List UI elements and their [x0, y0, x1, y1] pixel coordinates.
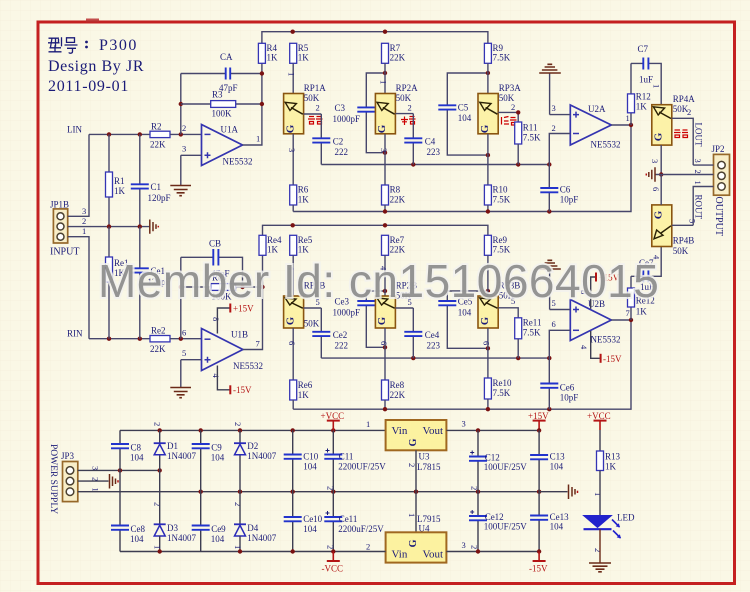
U2A output pin 1	[611, 113, 633, 127]
svg-text:1: 1	[593, 492, 603, 496]
svg-text:Vin: Vin	[392, 549, 408, 561]
svg-text:100K: 100K	[212, 109, 233, 119]
diode D3 1N4007	[153, 523, 197, 552]
resistor Re11 7.5K	[515, 318, 542, 359]
svg-text:3: 3	[82, 206, 86, 216]
svg-text:R9: R9	[493, 43, 504, 53]
svg-text:2200uF/25V: 2200uF/25V	[338, 524, 384, 534]
red notch artifact on top border	[86, 19, 99, 23]
inverted ground at U2A pin3	[539, 64, 561, 73]
capacitor C9 104	[192, 430, 225, 491]
svg-text:2: 2	[511, 102, 515, 112]
U1B pin 4 -15V	[211, 366, 252, 396]
+15V power symbol (top bus)	[528, 411, 549, 430]
feedback rail U1A pin2	[180, 74, 182, 135]
svg-text:3: 3	[462, 540, 466, 550]
svg-text:1N4007: 1N4007	[247, 533, 276, 543]
wire bottom power bus	[120, 542, 386, 554]
svg-text:2: 2	[182, 123, 186, 133]
svg-text:1K: 1K	[636, 307, 648, 317]
svg-text:C11: C11	[339, 452, 354, 462]
-VCC power symbol (bottom bus)	[322, 552, 344, 574]
wire bus3 B (feedback return)	[293, 320, 631, 411]
svg-text:22K: 22K	[390, 53, 406, 63]
svg-text:RIN: RIN	[67, 329, 83, 339]
svg-text:1K: 1K	[267, 245, 279, 255]
svg-text:1: 1	[233, 545, 243, 549]
svg-text:2: 2	[233, 422, 243, 426]
svg-text:10pF: 10pF	[560, 195, 579, 205]
red label gaoyin (treble)	[308, 117, 323, 125]
inverted ground at U2B pin5	[539, 260, 561, 269]
svg-text:1000pF: 1000pF	[333, 114, 361, 124]
svg-text:2: 2	[366, 542, 370, 552]
svg-text:-VCC: -VCC	[322, 564, 344, 574]
ground (power common at JP3)	[110, 474, 119, 489]
svg-text:10pF: 10pF	[560, 393, 579, 403]
svg-text:Ce13: Ce13	[550, 512, 569, 522]
svg-text:223: 223	[427, 147, 441, 157]
resistor Re4 1K	[259, 235, 282, 255]
U1A output pin 1 wire	[243, 63, 265, 145]
svg-text:+15V: +15V	[528, 411, 549, 421]
svg-text:7.5K: 7.5K	[493, 53, 511, 63]
svg-text:Ce12: Ce12	[485, 512, 504, 522]
capacitor Ce3 1000pF	[333, 289, 388, 350]
svg-text:1N4007: 1N4007	[167, 451, 196, 461]
svg-text:+VCC: +VCC	[321, 411, 345, 421]
JP2 pin 3 wire	[693, 159, 714, 166]
svg-text:Ce8: Ce8	[131, 524, 146, 534]
svg-text:JP2: JP2	[712, 144, 725, 154]
capacitor C12 100UF/25V	[469, 430, 527, 491]
svg-text:50K: 50K	[304, 319, 320, 329]
RP3B wiper pin 5 wire	[498, 296, 518, 318]
svg-text:INPUT: INPUT	[50, 247, 79, 258]
diode D2 1N4007	[233, 422, 277, 492]
resistor Re5 1K	[290, 235, 313, 255]
svg-text:2: 2	[593, 548, 603, 552]
U2B pin 8 +15V	[579, 273, 620, 309]
svg-text:C13: C13	[550, 452, 566, 462]
wire bus2 B (wiper bus)	[321, 356, 551, 360]
svg-text:Re6: Re6	[298, 380, 313, 390]
wire top power bus	[120, 428, 386, 432]
svg-text:1K: 1K	[114, 186, 126, 196]
svg-text:22K: 22K	[390, 195, 406, 205]
wire bus2 A (wiper bus)	[321, 162, 551, 166]
RP1B wiper pin 5 wire	[304, 297, 322, 308]
ground (output common)	[646, 167, 661, 181]
resistor R6 1K	[290, 185, 310, 212]
svg-text:NE5532: NE5532	[591, 140, 621, 150]
svg-text:1K: 1K	[298, 390, 310, 400]
svg-text:CB: CB	[209, 239, 221, 249]
op-amp U1B NE5532	[202, 329, 264, 372]
U2B pin 6 riser	[549, 319, 570, 358]
svg-text:R4: R4	[267, 43, 278, 53]
svg-text:NE5532: NE5532	[233, 361, 263, 371]
svg-text:50K: 50K	[673, 246, 689, 256]
svg-text:1K: 1K	[267, 53, 279, 63]
potentiometer RP2B 50K	[375, 255, 417, 380]
op-amp U2B NE5532	[570, 299, 620, 345]
RP4B wiper pin 5 wire	[672, 219, 698, 225]
svg-text:22K: 22K	[390, 390, 406, 400]
svg-text:6: 6	[182, 328, 186, 338]
U2A pin 2 riser	[549, 123, 570, 165]
svg-text:2: 2	[326, 545, 336, 549]
svg-text:2: 2	[470, 545, 480, 549]
svg-text:Ce11: Ce11	[339, 514, 358, 524]
resistor Re12 1K	[628, 276, 655, 320]
svg-text:G: G	[480, 317, 491, 325]
svg-text:Re9: Re9	[493, 235, 508, 245]
svg-text:104: 104	[130, 534, 144, 544]
JP2 pin 2 wire	[661, 170, 713, 175]
svg-text:1: 1	[378, 80, 388, 84]
capacitor Ce10 104	[284, 492, 323, 552]
svg-text:1: 1	[626, 113, 630, 123]
svg-text:3: 3	[91, 466, 101, 470]
capacitor Ce9 104	[192, 492, 226, 552]
svg-text:1K: 1K	[636, 102, 648, 112]
capacitor Ce4 223	[404, 308, 440, 358]
svg-text:+VCC: +VCC	[587, 411, 611, 421]
svg-text:C12: C12	[485, 453, 500, 463]
svg-text:G: G	[408, 539, 419, 547]
svg-text:R11: R11	[523, 123, 538, 133]
connector JP3	[48, 444, 78, 514]
potentiometer RP4A 50K	[652, 94, 696, 145]
svg-text:1: 1	[652, 84, 662, 88]
svg-text:LIN: LIN	[67, 125, 82, 135]
svg-text:6: 6	[482, 341, 492, 345]
svg-text:5: 5	[688, 219, 698, 223]
svg-text:G: G	[376, 124, 388, 133]
svg-text:22K: 22K	[390, 245, 406, 255]
U4 output wire pin 3	[446, 540, 541, 554]
svg-text:U2A: U2A	[588, 104, 606, 114]
svg-text:1000pF: 1000pF	[333, 308, 361, 318]
svg-text:C6: C6	[560, 185, 571, 195]
wire top bus B	[263, 223, 488, 235]
capacitor Ce6 10pF	[540, 358, 578, 409]
wire bus3 A (feedback return)	[293, 125, 631, 214]
svg-text:Re7: Re7	[390, 235, 405, 245]
svg-text:POWER SUPPLY: POWER SUPPLY	[48, 444, 58, 514]
capacitor Ce2 222	[312, 308, 348, 358]
svg-text:C4: C4	[425, 137, 436, 147]
svg-text:7.5K: 7.5K	[493, 388, 511, 398]
svg-text:6: 6	[552, 319, 556, 329]
svg-text:1K: 1K	[298, 245, 310, 255]
resistor R8 22K	[382, 185, 406, 212]
-15V power symbol (bottom bus)	[529, 552, 548, 574]
svg-text:R7: R7	[390, 43, 401, 53]
RP3A wiper pin 2 wire	[498, 102, 520, 122]
U3 output wire pin 3	[446, 419, 541, 433]
svg-text:Ce9: Ce9	[211, 524, 226, 534]
U1B pin 5 wire	[181, 348, 202, 388]
resistor Re1 1K	[106, 227, 129, 339]
svg-text:U1A: U1A	[221, 125, 239, 135]
potentiometer RP1A 50K	[284, 63, 327, 185]
svg-text:3: 3	[287, 148, 297, 152]
potentiometer RP4B 50K	[652, 205, 695, 256]
svg-text:R10: R10	[493, 185, 509, 195]
svg-text:R3: R3	[212, 90, 223, 100]
LED	[584, 513, 635, 539]
svg-text:G: G	[408, 438, 419, 446]
JP1B pin 2 ground wire	[68, 216, 150, 227]
svg-text:Ce6: Ce6	[560, 383, 575, 393]
capacitor CA 47pF	[181, 52, 262, 93]
svg-text:L7815: L7815	[417, 462, 441, 472]
U1B output pin 7 wire	[243, 255, 263, 349]
svg-text:G: G	[653, 132, 665, 141]
feedback rail U1B pin6	[180, 257, 182, 338]
wire R2 to U1A pin2	[170, 133, 202, 135]
capacitor Ce5 104	[438, 289, 490, 351]
capacitor C4 223	[404, 114, 440, 165]
capacitor C13 104	[530, 430, 565, 491]
svg-text:1uF: 1uF	[639, 75, 653, 85]
resistor R5 1K	[290, 43, 310, 63]
svg-text:3: 3	[379, 148, 389, 152]
svg-text:G: G	[479, 124, 491, 133]
svg-text:1: 1	[693, 181, 703, 185]
potentiometer RP1B 50K	[284, 255, 326, 380]
svg-text:2: 2	[316, 103, 320, 113]
svg-text:D4: D4	[247, 523, 258, 533]
svg-text:1: 1	[287, 72, 297, 76]
svg-text:3: 3	[552, 103, 556, 113]
svg-text:C7: C7	[638, 44, 649, 54]
capacitor C3 1000pF	[333, 71, 388, 155]
svg-text:G: G	[653, 210, 665, 219]
svg-text:3: 3	[650, 159, 660, 163]
svg-text:Member Id: cn1510664015: Member Id: cn1510664015	[98, 255, 659, 307]
potentiometer RP3B 50K	[478, 255, 520, 377]
svg-text:8: 8	[211, 317, 221, 321]
svg-text:R8: R8	[390, 185, 401, 195]
svg-text:120pF: 120pF	[148, 193, 171, 203]
svg-text:222: 222	[335, 341, 349, 351]
JP3 pin 3 wire (row A)	[78, 466, 162, 473]
svg-text:RP3A: RP3A	[499, 83, 522, 93]
svg-text:2: 2	[326, 486, 336, 490]
resistor R11 7.5K	[515, 122, 541, 165]
RP4A wiper pin 2 / LOUT	[672, 107, 704, 165]
capacitor C10 104	[284, 430, 319, 491]
connector JP2	[712, 144, 730, 236]
potentiometer RP3A 50K	[478, 63, 521, 185]
svg-text:Vout: Vout	[423, 425, 444, 437]
svg-text:U1B: U1B	[231, 330, 248, 340]
ground at U1A pin3	[170, 186, 191, 196]
op-amp U1A NE5532	[202, 125, 253, 167]
resistor R2 22K	[150, 122, 170, 150]
resistor Re10 7.5K	[484, 378, 512, 409]
svg-text:D2: D2	[247, 441, 258, 451]
svg-text:222: 222	[335, 147, 349, 157]
regulator U4 L7915	[386, 492, 447, 563]
svg-text:7.5K: 7.5K	[523, 133, 541, 143]
wire D1-D3 column	[153, 470, 163, 524]
capacitor Ce13 104	[530, 492, 569, 552]
svg-text:C2: C2	[333, 137, 344, 147]
svg-text:D3: D3	[167, 523, 178, 533]
title text 型号: P300	[48, 37, 144, 95]
svg-text:C5: C5	[458, 103, 469, 113]
svg-text:R13: R13	[605, 452, 621, 462]
ground (input common)	[150, 220, 159, 234]
svg-text:R2: R2	[151, 122, 162, 132]
svg-text:104: 104	[303, 462, 317, 472]
svg-text:2200UF/25V: 2200UF/25V	[338, 462, 386, 472]
svg-text:3: 3	[693, 159, 703, 163]
svg-text:RP4A: RP4A	[673, 94, 696, 104]
svg-text:5: 5	[182, 348, 186, 358]
svg-text:Ce10: Ce10	[303, 514, 322, 524]
svg-text:6: 6	[287, 341, 297, 345]
RP4A pin 3 to ground	[650, 145, 663, 177]
svg-text:7: 7	[256, 339, 260, 349]
svg-text:7.5K: 7.5K	[493, 195, 511, 205]
svg-text:C3: C3	[335, 103, 346, 113]
U2B pin 4 -15V	[579, 331, 622, 364]
resistor Re7 22K	[382, 235, 406, 255]
+VCC power symbol (top bus)	[321, 411, 345, 430]
svg-text:1N4007: 1N4007	[247, 451, 276, 461]
capacitor Ce1 120pF	[131, 227, 171, 339]
resistor Re8 22K	[382, 380, 406, 409]
regulator U3 L7815	[366, 419, 446, 472]
connector JP1B	[50, 200, 79, 258]
capacitor Ce11 2200uF/25V	[324, 492, 384, 552]
capacitor C2 222	[312, 114, 348, 165]
svg-text:50K: 50K	[304, 93, 320, 103]
svg-text:2: 2	[693, 170, 703, 174]
red label diyin (bass)	[502, 117, 517, 126]
svg-text:2: 2	[82, 216, 86, 226]
svg-text:22K: 22K	[150, 140, 166, 150]
svg-text:R6: R6	[298, 185, 309, 195]
op-amp U2A NE5532	[570, 104, 620, 150]
svg-text:6: 6	[651, 187, 661, 191]
RP2B wiper pin 5 wire	[395, 297, 413, 308]
svg-text:1K: 1K	[605, 462, 617, 472]
wire LED to ground	[593, 529, 603, 563]
ground at U1B pin5	[170, 388, 191, 398]
diode D4 1N4007	[233, 492, 277, 552]
svg-text:-15V: -15V	[603, 354, 622, 364]
capacitor C1 120pF	[131, 134, 171, 228]
svg-text:100UF/25V: 100UF/25V	[484, 522, 528, 532]
JP1B pin 3 wire to LIN	[68, 134, 89, 216]
JP3 pin 1 wire (row B mid bus)	[78, 488, 542, 494]
resistor Re6 1K	[290, 380, 313, 409]
svg-text:C8: C8	[131, 443, 142, 453]
red label yinliang (volume)	[674, 130, 688, 138]
wire top bus A	[262, 30, 488, 44]
capacitor C6 10pF	[540, 165, 578, 212]
svg-text:2: 2	[470, 486, 480, 490]
svg-text:50K: 50K	[396, 93, 412, 103]
svg-text:Ce2: Ce2	[333, 330, 348, 340]
svg-text:Design By JR: Design By JR	[48, 58, 144, 75]
svg-text:G: G	[377, 317, 388, 325]
svg-text:7: 7	[626, 308, 630, 318]
svg-text:NE5532: NE5532	[223, 157, 253, 167]
capacitor CB 47pF	[181, 239, 245, 290]
svg-text:Vout: Vout	[423, 549, 444, 561]
svg-text:-15V: -15V	[529, 564, 548, 574]
svg-text:2: 2	[687, 107, 691, 117]
svg-text:JP3: JP3	[61, 451, 75, 461]
resistor Re3 100K	[181, 273, 265, 302]
svg-text:104: 104	[550, 522, 564, 532]
svg-text:104: 104	[550, 462, 564, 472]
svg-text:2011-09-01: 2011-09-01	[48, 78, 129, 95]
svg-text:104: 104	[130, 453, 144, 463]
svg-text:2: 2	[408, 103, 412, 113]
svg-text:G: G	[284, 124, 296, 133]
svg-text:1: 1	[153, 545, 163, 549]
svg-text:100UF/25V: 100UF/25V	[484, 462, 528, 472]
svg-text:Re8: Re8	[390, 380, 405, 390]
svg-text:1N4007: 1N4007	[167, 533, 196, 543]
svg-text:2: 2	[153, 422, 163, 426]
svg-text:G: G	[285, 317, 296, 325]
U1A pin 3 wire	[181, 144, 202, 186]
svg-text:L7915: L7915	[417, 514, 441, 524]
svg-text:Re4: Re4	[267, 235, 282, 245]
svg-text:Ce4: Ce4	[425, 330, 440, 340]
svg-text:7.5K: 7.5K	[493, 245, 511, 255]
capacitor C7 1uF	[631, 44, 662, 105]
svg-text:C1: C1	[151, 182, 162, 192]
resistor Re2 22K	[150, 326, 170, 355]
svg-text:104: 104	[458, 308, 472, 318]
RP1A wiper pin 2 wire	[304, 103, 322, 115]
U1B pin 8 +15V	[211, 304, 254, 334]
svg-text:104: 104	[303, 524, 317, 534]
capacitor C11 2200UF/25V	[324, 430, 386, 491]
svg-text:JP1B: JP1B	[50, 200, 69, 210]
JP3 pin 2 wire to ground	[78, 477, 109, 481]
resistor R7 22K	[382, 43, 406, 63]
svg-text:RP1A: RP1A	[304, 83, 327, 93]
svg-text:U3: U3	[419, 452, 430, 462]
svg-text:Re10: Re10	[493, 378, 512, 388]
U3 pin 2 stem	[407, 450, 417, 491]
U2B pin 5 wire	[550, 269, 571, 310]
resistor R13 1K	[597, 451, 621, 472]
svg-text:Re5: Re5	[298, 235, 313, 245]
RP4B pin 6 wire	[651, 175, 661, 205]
U2A pin 3 wire	[550, 73, 571, 115]
wire LIN	[89, 133, 150, 135]
svg-text:1: 1	[256, 134, 260, 144]
resistor R4 1K	[258, 43, 278, 63]
U2B output pin 7	[611, 308, 633, 322]
svg-text:2: 2	[233, 502, 243, 506]
diode D1 1N4007	[153, 422, 197, 470]
svg-text:LED: LED	[617, 513, 635, 523]
svg-text:P300: P300	[99, 37, 138, 54]
